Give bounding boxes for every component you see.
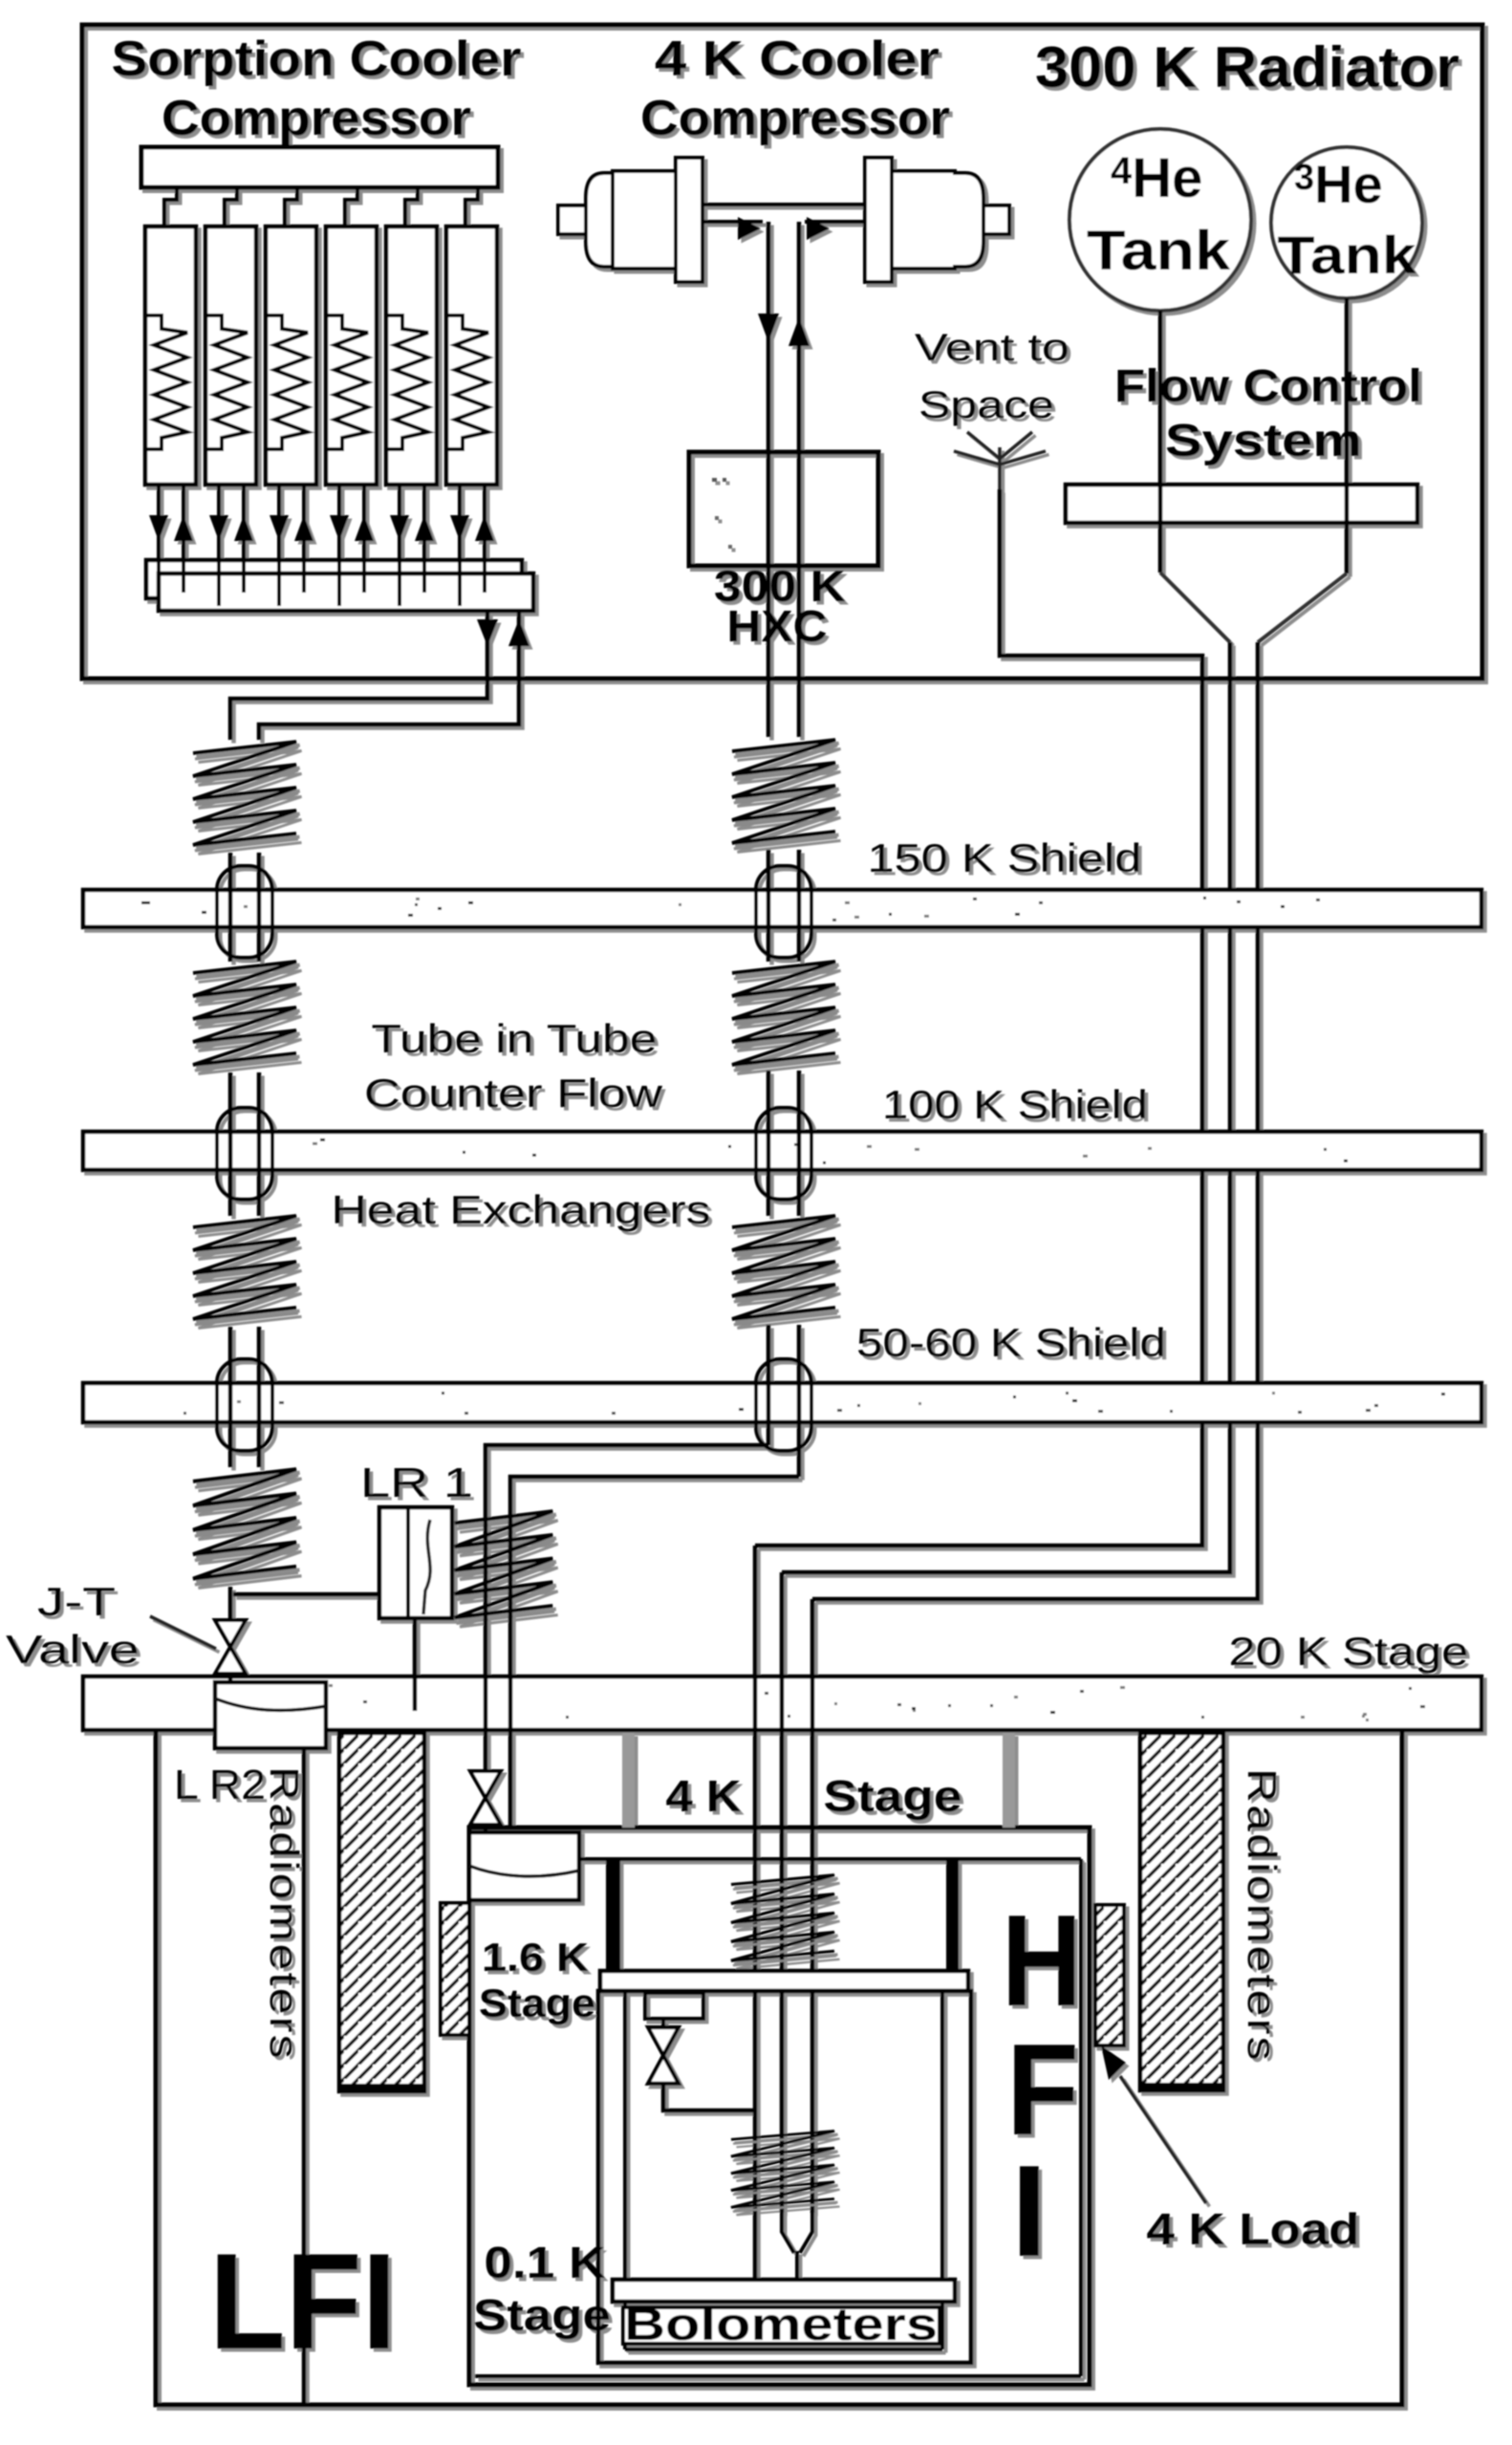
svg-text:Radiometers: Radiometers — [262, 1766, 307, 2061]
black strut left (4K-1.6K) — [606, 1859, 620, 1971]
svg-text:J-T: J-T — [37, 1579, 116, 1624]
wire J-T valve to LR2 — [228, 1674, 233, 1686]
svg-text:Stage: Stage — [479, 1980, 595, 2025]
sorption compressor bed 2 — [205, 227, 256, 485]
LR1 HX fins — [455, 1511, 555, 1623]
wire 3He tank stem — [1345, 298, 1350, 573]
svg-text:LFI: LFI — [209, 2226, 397, 2378]
inlet line with check valve (up) bed 2 — [242, 485, 246, 560]
3He tank circle — [1271, 147, 1422, 298]
150 K shield bar — [83, 890, 1481, 927]
wire 4K supply through 20K stage — [484, 1509, 488, 1771]
svg-text:Tank: Tank — [1278, 225, 1417, 285]
wire funnel right — [1258, 573, 1347, 642]
svg-text:Heat Exchangers: Heat Exchangers — [332, 1187, 711, 1232]
4K pipe pair from compressor — [768, 222, 799, 737]
dilution enclosure outer box — [598, 1991, 971, 2363]
wire hook to sorption bed 2 — [225, 187, 237, 227]
svg-text:Compressor: Compressor — [162, 91, 471, 146]
4K compressor right dome — [953, 173, 983, 267]
svg-text:4 K Cooler: 4 K Cooler — [655, 32, 940, 87]
4K HX coil 2 — [732, 962, 837, 1071]
svg-text:Vent to: Vent to — [915, 327, 1069, 369]
svg-text:Stage: Stage — [824, 1771, 962, 1821]
wire 4He line down — [782, 642, 1230, 1572]
wire funnel left — [1160, 573, 1230, 642]
svg-text:Counter Flow: Counter Flow — [364, 1071, 663, 1115]
inlet line with check valve (up) bed 1 — [182, 485, 185, 560]
outer enclosure box (warm unit) — [82, 25, 1482, 679]
feedthrough capsule 50-60K (sorption) — [217, 1359, 272, 1451]
flow arrow right at left port — [738, 217, 761, 240]
HFI inner wall lines — [475, 1859, 1081, 2376]
4K liquid reservoir box — [469, 1832, 579, 1900]
1.6K stage plate — [600, 1971, 968, 1991]
0.1K bolometer plate bar — [613, 2280, 955, 2302]
svg-text:4 K: 4 K — [666, 1771, 742, 1821]
outlet line with check valve (down) bed 1 — [157, 485, 161, 560]
4K compressor left dome — [586, 173, 616, 267]
sorption HX coil 2 — [193, 962, 298, 1071]
4K load hatched block — [1095, 1905, 1124, 2045]
svg-text:150 K Shield: 150 K Shield — [868, 835, 1142, 880]
sorption manifold inner channel — [159, 573, 533, 611]
sorption pipe segment A — [230, 853, 259, 962]
right radiometers hatched box — [1140, 1733, 1223, 2090]
svg-text:Radiometers: Radiometers — [1240, 1768, 1285, 2063]
svg-text:LR 1: LR 1 — [360, 1460, 473, 1506]
pointer arrow to 4K load — [1120, 2076, 1206, 2203]
HFI 4K enclosure box — [469, 1828, 1090, 2385]
svg-text:HXC: HXC — [727, 601, 828, 651]
focal plane enclosure box — [156, 1730, 1402, 2405]
left radiometers hatched box — [339, 1733, 424, 2091]
grey strut left (20K-4K) — [622, 1733, 635, 1828]
sorption manifold outer channel — [146, 560, 522, 598]
flow arrow right at right port — [807, 217, 830, 240]
svg-text:H: H — [1002, 1888, 1082, 2033]
wires into manifold — [157, 560, 161, 606]
svg-text:Valve: Valve — [6, 1627, 140, 1672]
wire hook to sorption bed 1 — [164, 187, 177, 227]
wire He line 1 down to bolometer plate — [753, 1546, 758, 2280]
black strut right (4K-1.6K) — [946, 1859, 959, 1971]
heater coil in bed 3 — [268, 315, 308, 449]
sorption compressor bed 1 — [145, 227, 196, 485]
sorption compressor bed 5 — [386, 227, 437, 485]
wire 4K supply jog to LR1 HX — [486, 1445, 768, 1509]
svg-text:Sorption Cooler: Sorption Cooler — [112, 32, 522, 87]
wire He line 2 down — [780, 1572, 785, 2213]
4K pipe segment A — [768, 850, 799, 962]
inlet line with check valve (up) bed 6 — [483, 485, 486, 560]
J-T valve — [215, 1620, 246, 1674]
wire dilution converge right — [800, 2213, 812, 2253]
4K compressor left body — [613, 171, 676, 269]
wire hook to sorption bed 4 — [345, 187, 357, 227]
4K compressor right flange — [865, 158, 892, 282]
wire 4K return jog to LR1 HX — [510, 1477, 799, 1509]
svg-text:System: System — [1165, 416, 1362, 466]
svg-text:4 K Load: 4 K Load — [1147, 2204, 1360, 2254]
outlet line with check valve (down) bed 6 — [458, 485, 462, 560]
flow arrow down on 4K supply — [758, 314, 779, 342]
wire hook to sorption bed 5 — [405, 187, 418, 227]
inlet line with check valve (up) bed 4 — [362, 485, 366, 560]
wire 4K return through 20K stage — [508, 1509, 513, 1829]
LR1 box — [379, 1507, 452, 1618]
vent to space symbol — [954, 432, 1046, 489]
sorption compressor bed 6 — [446, 227, 497, 485]
sorption compressor bed 4 — [326, 227, 377, 485]
sorption compressor header bar — [141, 147, 498, 187]
feedthrough capsule 150K (sorption) — [217, 866, 272, 958]
wire 3He line down — [812, 642, 1258, 1599]
svg-text:I: I — [1011, 2138, 1048, 2283]
4K compressor right body — [892, 171, 955, 269]
wire dilution converge left — [782, 2213, 794, 2253]
dilution enclosure inner walls — [625, 1991, 942, 2349]
4He tank circle — [1069, 129, 1251, 311]
heater coil in bed 4 — [328, 315, 368, 449]
4K HX coil 1 — [732, 740, 837, 849]
4K stage HX coil — [731, 1875, 836, 1966]
wire hook to sorption bed 6 — [465, 187, 478, 227]
inlet line with check valve (up) bed 3 — [302, 485, 306, 560]
inlet line with check valve (up) bed 5 — [422, 485, 426, 560]
wire vent line — [755, 489, 1202, 1546]
4K J-T valve — [470, 1771, 501, 1825]
feedthrough capsule 50-60K (4K) — [756, 1359, 811, 1451]
flow arrow up (manifold return) — [508, 619, 529, 646]
sorption HX coil 1 — [193, 742, 298, 851]
feedthrough capsule 100K (sorption) — [217, 1108, 272, 1200]
wire dilution tip to plate — [795, 2251, 799, 2282]
dilution HX coil — [731, 2131, 836, 2211]
heater coil in bed 5 — [388, 315, 428, 449]
wire LR1 drain — [413, 1618, 418, 1711]
sorption HX coil 3 — [193, 1216, 298, 1325]
sorption pipe segment C — [230, 1327, 259, 1467]
wire sorption to J-T valve — [228, 1587, 233, 1622]
outlet line with check valve (down) bed 2 — [217, 485, 221, 560]
svg-text:Space: Space — [918, 384, 1054, 426]
4K pipe segment C — [768, 1325, 799, 1477]
wire dilution valve drain — [663, 2084, 753, 2110]
svg-text:20 K Stage: 20 K Stage — [1229, 1629, 1469, 1674]
bolometers box — [623, 2307, 940, 2344]
wire 4K valve to 4K box — [484, 1825, 488, 1834]
feedthrough capsule 100K (4K) — [756, 1108, 811, 1200]
flow control bar — [1066, 485, 1417, 523]
sorption pipe segment B — [230, 1072, 259, 1216]
wire manifold low-pressure return — [259, 611, 519, 740]
svg-text:0.1 K: 0.1 K — [485, 2238, 606, 2287]
4K compressor left nub — [558, 206, 586, 234]
svg-text:Bolometers: Bolometers — [624, 2300, 938, 2350]
wire to LR1 — [233, 1592, 379, 1597]
svg-text:Compressor: Compressor — [640, 91, 950, 146]
dilution J-T valve — [648, 2027, 679, 2084]
4K compressor left flange — [676, 158, 702, 282]
svg-text:Stage: Stage — [473, 2290, 611, 2340]
4K compressor T pipe — [702, 205, 865, 235]
heater coil in bed 1 — [147, 315, 187, 449]
svg-text:300 K Radiator: 300 K Radiator — [1035, 35, 1459, 99]
4K HX coil 3 — [732, 1216, 837, 1325]
4K compressor right nub — [983, 206, 1009, 234]
wire hook to sorption bed 3 — [285, 187, 297, 227]
dilution valve fitting — [645, 1993, 703, 2019]
20 K stage bar — [83, 1677, 1481, 1730]
flow arrow down (manifold out) — [477, 619, 498, 646]
svg-text:L R2: L R2 — [174, 1762, 266, 1808]
1.6K strut hatched block — [441, 1903, 469, 2035]
300 K HXC box — [689, 452, 878, 566]
svg-text:100 K Shield: 100 K Shield — [882, 1082, 1148, 1127]
svg-text:1.6 K: 1.6 K — [482, 1935, 589, 1980]
wire manifold high-pressure out — [230, 611, 487, 740]
outlet line with check valve (down) bed 5 — [398, 485, 401, 560]
heater coil in bed 6 — [448, 315, 488, 449]
feedthrough capsule 150K (4K) — [756, 866, 811, 958]
100 K shield bar — [83, 1132, 1481, 1170]
svg-text:Tank: Tank — [1087, 220, 1231, 282]
sorption HX coil 4 — [193, 1469, 298, 1585]
wire He line 3 down — [810, 1599, 815, 2213]
50-60 K shield bar — [83, 1383, 1481, 1422]
wire LR2 to LFI — [302, 1748, 307, 2403]
outlet line with check valve (down) bed 3 — [277, 485, 281, 560]
flow arrow up on 4K return — [788, 317, 810, 346]
grey strut right (20K-4K) — [1003, 1733, 1015, 1828]
svg-text:50-60 K Shield: 50-60 K Shield — [856, 1320, 1166, 1365]
pointer line to J-T valve — [150, 1616, 216, 1649]
4K pipe segment B — [768, 1071, 799, 1216]
svg-text:Tube in Tube: Tube in Tube — [372, 1016, 658, 1061]
LR2 box — [215, 1682, 326, 1748]
heater coil in bed 2 — [207, 315, 248, 449]
wire 4He tank stem — [1158, 311, 1163, 573]
outlet line with check valve (down) bed 4 — [337, 485, 341, 560]
sorption compressor bed 3 — [266, 227, 316, 485]
